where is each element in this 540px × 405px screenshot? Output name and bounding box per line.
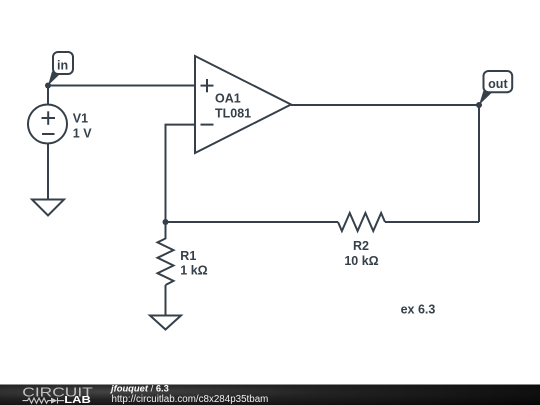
svg-text:R1: R1 [180,249,196,263]
ground (below V1) [32,200,64,216]
svg-text:V1: V1 [73,112,88,126]
label R2 / 10 kΩ [344,239,378,268]
resistor R2 [338,213,385,231]
wire: op-amp inverting input feedback [166,125,196,222]
wire: in node to V1 top [47,86,49,106]
svg-text:1 V: 1 V [73,126,92,140]
voltage source V1 [28,105,67,144]
label OA1 / TL081 [215,92,251,121]
wire: in node to op-amp + input [48,85,195,87]
svg-text:OA1: OA1 [215,92,241,106]
junction: out node [476,102,482,108]
node label "out" [479,71,512,105]
wire: feedback node to R2 left end [166,221,339,223]
junction: feedback node [163,219,169,225]
svg-text:TL081: TL081 [215,107,251,121]
label R1 / 1 kΩ [180,249,207,277]
svg-text:jfouquet / 6.3: jfouquet / 6.3 [110,383,169,394]
svg-text:R2: R2 [353,239,369,253]
wire: R2 right end to out column [385,221,479,223]
junction: in node [45,83,51,89]
svg-text:out: out [488,77,508,91]
node label "in" [48,52,73,86]
label V1 / 1 V [73,112,92,141]
svg-text:ex 6.3: ex 6.3 [401,302,436,316]
resistor R1 [158,239,174,286]
wire: out node down to bottom rail [478,105,480,222]
CircuitLab logo [22,385,93,405]
footer bar [0,385,540,405]
svg-text:10 kΩ: 10 kΩ [344,254,378,268]
wire: R1 bottom to ground [165,285,167,316]
svg-text:in: in [57,59,68,73]
wire: op-amp output to out node [291,104,479,106]
ground (below R1) [150,316,181,330]
svg-text:http://circuitlab.com/c8x284p3: http://circuitlab.com/c8x284p35tbam [112,394,269,405]
svg-text:1 kΩ: 1 kΩ [180,263,207,277]
wire: feedback node to R1 top [165,222,167,239]
wire: V1 bottom to ground [47,143,49,200]
svg-text:LAB: LAB [64,395,91,405]
op-amp OA1 [195,56,291,153]
